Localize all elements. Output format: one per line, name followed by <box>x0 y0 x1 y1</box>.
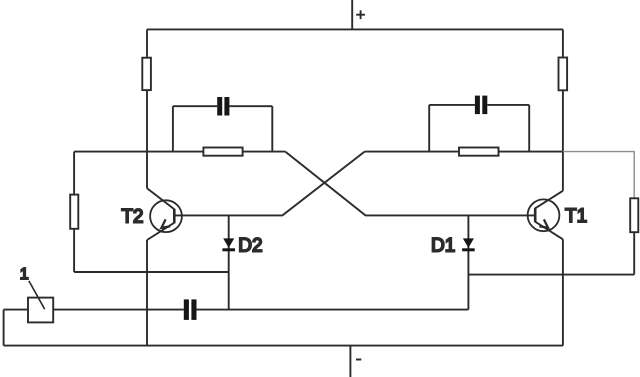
label + (positive terminal) <box>356 10 365 19</box>
svg-text:T2: T2 <box>121 207 143 228</box>
wire: T1 emitter down to bottom rail <box>562 239 564 345</box>
resistor: left edge resistor <box>70 195 78 229</box>
resistor: right coupling resistor (horizontal) <box>459 148 499 156</box>
wire: left edge resistor to left mid wire <box>73 229 75 272</box>
label - (negative terminal) <box>356 359 361 361</box>
wire: negative supply lead <box>349 346 351 377</box>
wire: cross-coupling right collector to T2 base <box>174 152 364 216</box>
wire: right collector node horizontal <box>365 151 563 153</box>
svg-text:D2: D2 <box>238 236 262 257</box>
wire: left mid horizontal (emitter node) <box>74 271 229 273</box>
resistor: right collector resistor <box>559 58 568 91</box>
switch contact 1 (pushbutton square) <box>28 298 53 323</box>
diode D1 <box>462 238 475 251</box>
wire: right mid horizontal (emitter node) <box>468 274 634 276</box>
wire: switch to trigger capacitor <box>53 309 184 311</box>
transistor T2 <box>147 188 182 240</box>
wire: positive supply lead <box>351 0 353 29</box>
wire: D2 branch vertical <box>228 215 230 309</box>
wire: left column resistor to T2 collector corner <box>146 90 148 188</box>
wire: left cap box right vertical <box>271 106 273 151</box>
wire: T2 emitter down to bottom rail <box>146 240 148 346</box>
wire: left capacitor branch (box top) <box>173 105 272 107</box>
wire: gray hook from right collector to right edge resistor <box>563 152 634 199</box>
capacitor: right coupling capacitor <box>475 96 487 115</box>
wire: right capacitor branch (box top) <box>429 104 529 106</box>
resistor: right edge resistor <box>630 198 638 232</box>
wire: right column from rail to resistor <box>562 29 564 57</box>
transistor T1 <box>528 191 563 240</box>
wire: switch to left hook <box>4 309 28 311</box>
svg-text:D1: D1 <box>431 236 455 257</box>
wire: cross-coupling left collector to T1 base <box>285 152 535 216</box>
switch lever <box>29 281 45 309</box>
wire: right edge resistor to right mid wire <box>633 232 635 274</box>
wire: left hook vertical <box>3 310 5 346</box>
wire: right cap box left vertical <box>428 105 430 152</box>
wire: right cap box right vertical <box>528 105 530 152</box>
resistor: left coupling resistor (horizontal) <box>203 148 242 156</box>
diode D2 <box>222 238 235 251</box>
capacitor: left coupling capacitor <box>217 97 229 116</box>
capacitor: trigger capacitor <box>184 299 197 320</box>
svg-text:T1: T1 <box>565 206 587 227</box>
wire: left edge column upper <box>73 152 75 195</box>
wire: D1 branch vertical <box>467 215 469 309</box>
wire: left column from rail to resistor <box>146 29 148 57</box>
wire: left collector node horizontal <box>74 151 285 153</box>
wire: top supply rail <box>147 28 563 30</box>
resistor: left collector resistor <box>142 58 151 90</box>
wire: bottom supply rail <box>4 345 563 347</box>
wire: left cap box left vertical <box>172 106 174 151</box>
wire: trigger line to D1 <box>197 309 469 311</box>
wire: right column resistor to T1 collector corner <box>562 90 564 191</box>
svg-text:1: 1 <box>20 266 29 283</box>
